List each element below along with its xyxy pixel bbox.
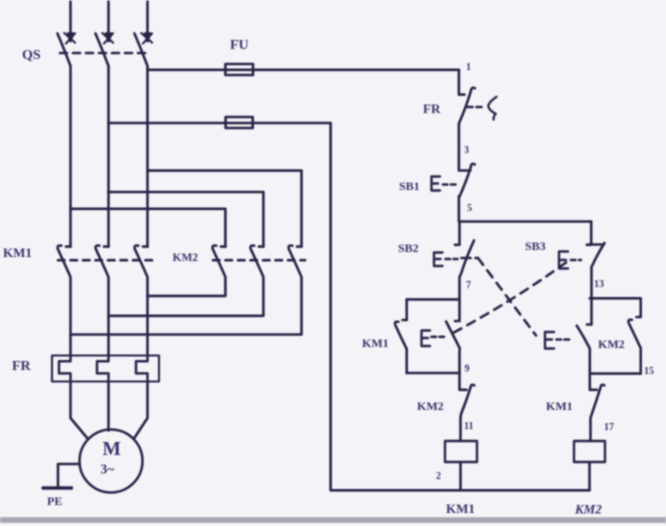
wire control return vertical and bottom [331, 123, 590, 490]
contactor KM1 pole1 [58, 245, 71, 355]
svg-text:FR: FR [423, 101, 441, 116]
supply line L1 arrow [64, 2, 75, 44]
bottom grey band [0, 517, 666, 523]
QS linkage dashed [60, 52, 151, 55]
motor M circle [80, 430, 143, 493]
contactor KM2 pole3 + output to phase1 [71, 245, 302, 334]
SB1 actuator E [432, 177, 441, 191]
svg-text:11: 11 [464, 421, 473, 432]
svg-text:3: 3 [464, 145, 469, 156]
FR heater 2 [97, 356, 109, 382]
svg-text:9: 9 [465, 364, 470, 375]
svg-text:KM1: KM1 [362, 336, 389, 350]
svg-text:FR: FR [12, 359, 32, 374]
svg-text:5: 5 [467, 203, 472, 214]
FR heater 3 [136, 356, 148, 382]
supply line L3 arrow [141, 2, 152, 44]
FR heater 1 [59, 356, 71, 382]
switch QS pole 1 blade [58, 34, 71, 67]
svg-text:17: 17 [604, 422, 614, 433]
button SB2 NC contact in right branch [577, 326, 597, 390]
wire branch split [460, 220, 592, 223]
wire phase2 vertical [107, 66, 110, 247]
svg-text:13: 13 [594, 279, 604, 290]
svg-text:SB2: SB2 [398, 241, 419, 255]
svg-text:QS: QS [22, 48, 41, 63]
svg-text:M: M [103, 439, 121, 460]
wire L3 to KM2 right contact [148, 171, 302, 247]
svg-text:PE: PE [47, 494, 62, 508]
FR trip actuator [468, 106, 486, 109]
svg-text:KM2: KM2 [598, 337, 625, 351]
button SB1 (NC stop) [459, 164, 475, 222]
supply line L2 arrow [102, 2, 113, 44]
button SB2 (NO start fwd) [455, 222, 460, 245]
svg-text:3~: 3~ [101, 462, 115, 477]
svg-text:KM2: KM2 [574, 502, 602, 517]
contactor KM1 pole3 [135, 245, 148, 355]
svg-text:FU: FU [230, 38, 249, 53]
thermal relay FR box [52, 356, 159, 382]
right branch NC actuator E [545, 332, 554, 349]
wire coil KM1 to bottom [459, 462, 462, 490]
SB2 actuator E [434, 253, 443, 267]
right loop bottom [590, 372, 641, 375]
coil KM1 [445, 441, 477, 462]
KM2 linkage dashed [213, 259, 305, 262]
contactor KM2 pole2 + output to phase2 [109, 245, 264, 315]
interlock contact KM1 (NC) right branch [591, 385, 605, 441]
node 1 corner, wire to FR contact [459, 70, 465, 95]
svg-text:1: 1 [466, 62, 471, 73]
ground PE wire [58, 464, 80, 488]
coil KM2 [574, 441, 605, 462]
wire control feed from L3 through FU to node 1 [148, 69, 459, 72]
wire control return from L2 through FU [109, 122, 331, 125]
mech link SB3 to left NC (dashed X) [452, 263, 566, 334]
svg-text:KM1: KM1 [3, 245, 32, 260]
wire coil KM2 to bottom [588, 462, 591, 490]
ground bar [43, 486, 72, 489]
svg-text:KM1: KM1 [546, 399, 573, 413]
wire phase3 vertical [146, 66, 149, 247]
wire FR to motor w [134, 382, 148, 439]
wire FR to motor u [71, 382, 89, 440]
button SB3 NC contact in left branch [446, 322, 466, 390]
right self-hold loop top [590, 297, 641, 300]
svg-text:2: 2 [436, 471, 441, 482]
button SB3 (NO start rev) [587, 243, 605, 325]
relay contact FR (NC) [459, 88, 475, 171]
switch QS pole 2 blade [96, 34, 109, 67]
SB3 actuator E [559, 252, 568, 269]
svg-text:SB3: SB3 [525, 239, 546, 253]
svg-text:SB1: SB1 [399, 179, 420, 193]
aux contact KM1 (self hold) [395, 299, 407, 373]
left loop bottom [407, 372, 460, 375]
aux contact KM2 (self hold) [628, 298, 640, 373]
svg-text:KM1: KM1 [446, 501, 475, 516]
left branch NC actuator E [422, 331, 431, 347]
fuse FU1 [225, 64, 253, 75]
svg-text:7: 7 [466, 280, 471, 291]
wire phase1 vertical [69, 66, 72, 247]
fuse FU2 [226, 117, 253, 128]
contactor KM1 pole2 [96, 245, 109, 355]
svg-text:KM2: KM2 [173, 252, 199, 264]
mech link SB2 to right NC (dashed X) [462, 257, 479, 260]
interlock contact KM2 (NC) left branch [461, 385, 475, 441]
switch QS pole 3 blade [135, 34, 148, 67]
wire L1 to KM2 left contact [71, 209, 226, 247]
KM1 linkage dashed [58, 259, 152, 262]
left self-hold loop top [407, 298, 460, 301]
wire to SB3, corner down [587, 222, 591, 245]
svg-text:15: 15 [644, 366, 654, 377]
svg-text:KM2: KM2 [417, 399, 444, 413]
wire L2 to KM2 middle contact [109, 192, 264, 247]
wire FR to motor v [107, 382, 110, 431]
contactor KM2 pole1 + output to phase3 [148, 245, 226, 295]
